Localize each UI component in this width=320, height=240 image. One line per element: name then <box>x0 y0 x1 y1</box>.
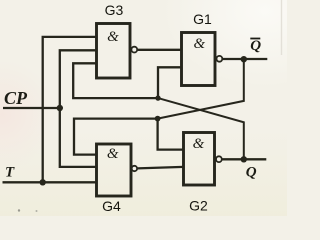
wire G3 output to G1 input 1 <box>137 49 181 51</box>
junction dot node A (Q feedback) <box>155 95 160 100</box>
svg-text:G4: G4 <box>102 198 121 214</box>
junction dot node B (Q-bar feedback) <box>155 116 161 122</box>
wire Q feedback to G3 input 3 <box>73 63 158 98</box>
wire G2 output to Q terminal <box>222 158 266 160</box>
NAND gate G3 body <box>97 24 131 79</box>
wire CP to G3 input 2 and G4 input 2 <box>60 50 97 167</box>
wire G4 output to G2 input 2 <box>137 167 183 169</box>
wire T to G3 input 1 <box>43 37 97 182</box>
junction dot Q-bar output node <box>241 56 247 62</box>
NAND gate G2 body <box>184 133 215 186</box>
svg-text:Q: Q <box>246 164 257 180</box>
junction dot CP node <box>57 105 63 111</box>
svg-text:&: & <box>193 36 205 52</box>
NAND gate G1 body <box>182 33 216 86</box>
svg-text:CP: CP <box>4 88 28 108</box>
svg-text:G1: G1 <box>193 11 212 27</box>
G1 output inversion bubble <box>217 56 223 62</box>
wire G1 output to Q-bar terminal <box>222 58 267 60</box>
wire Q-bar feedback to G4 input 1 <box>74 119 158 155</box>
svg-text:T: T <box>5 164 15 180</box>
svg-text:&: & <box>193 136 205 152</box>
junction dot Q output node <box>241 156 247 162</box>
wire node A to G1 input 2 <box>158 67 182 98</box>
G2 output inversion bubble <box>216 156 222 162</box>
wire node B to G2 input 1 <box>158 119 184 150</box>
wire Q cross-coupling diagonal to node A <box>158 98 244 159</box>
svg-text:&: & <box>107 146 119 162</box>
faint page edge line <box>281 0 283 55</box>
junction dot T node <box>40 179 46 185</box>
NAND gate G4 body <box>97 144 132 196</box>
paper speck 2 <box>36 210 38 212</box>
svg-text:Q: Q <box>250 38 261 54</box>
wire Q-bar cross-coupling diagonal to node B <box>158 59 244 118</box>
overbar of Q-bar <box>250 38 260 40</box>
G3 output inversion bubble <box>131 47 137 53</box>
wire CP input line <box>3 107 61 109</box>
G4 output inversion bubble <box>132 166 137 171</box>
wire T input line <box>3 181 97 183</box>
svg-text:G3: G3 <box>105 2 124 18</box>
svg-text:G2: G2 <box>189 198 208 214</box>
paper speck 1 <box>18 209 20 211</box>
svg-text:&: & <box>107 29 119 45</box>
